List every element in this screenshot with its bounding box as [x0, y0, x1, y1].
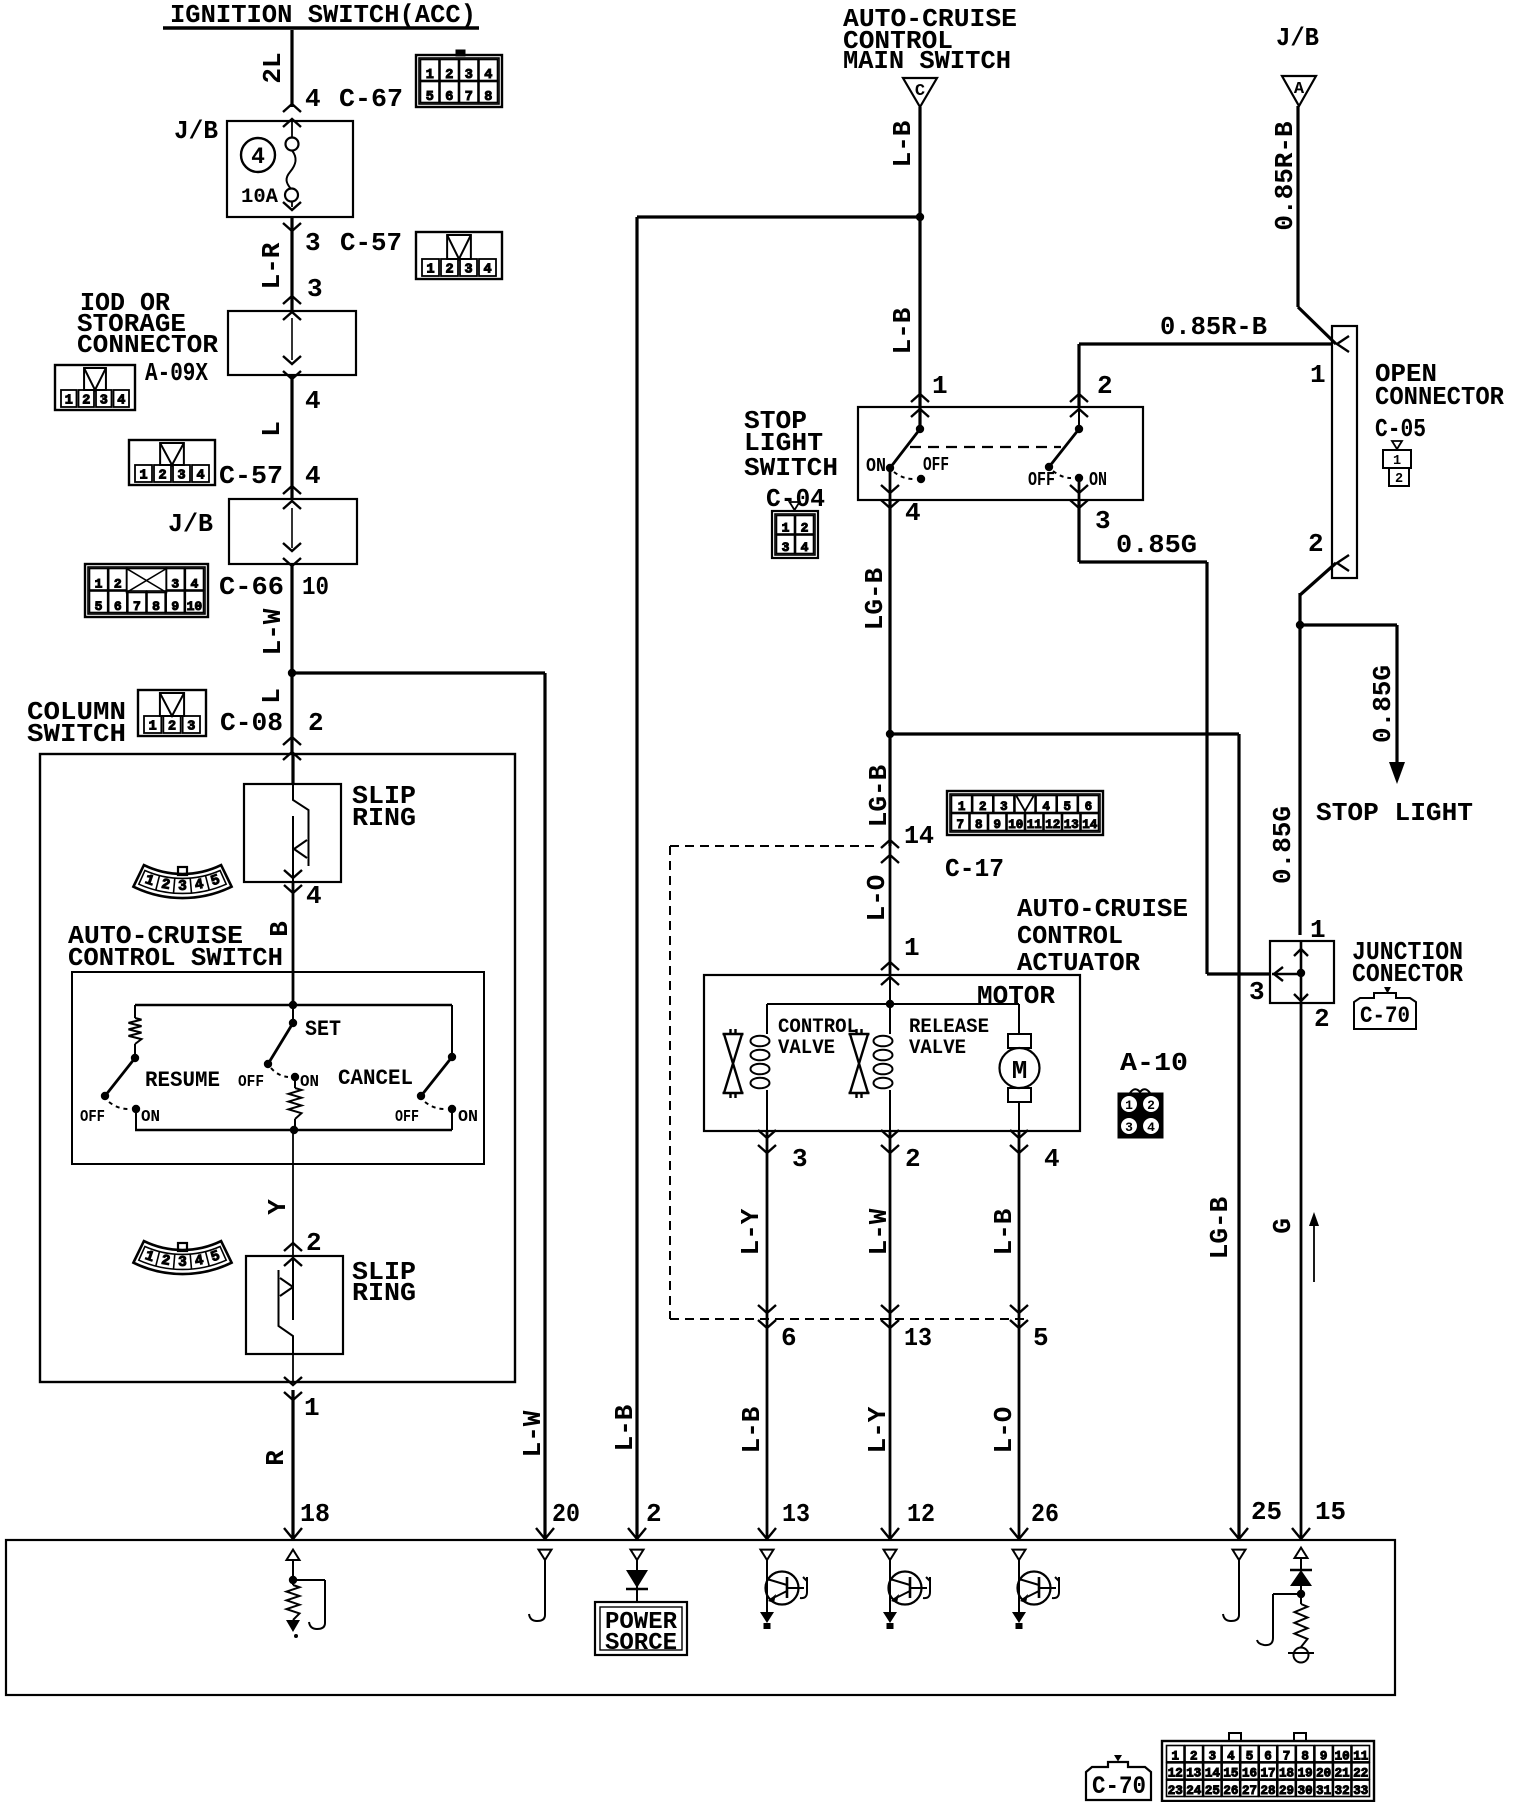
STOP LIGHT SWITCH label — [744, 406, 838, 483]
connector icon C-57 4-pin (left) — [129, 440, 215, 485]
svg-text:30: 30 — [1298, 1784, 1313, 1798]
svg-text:9: 9 — [1320, 1749, 1328, 1763]
svg-text:1: 1 — [782, 521, 790, 536]
svg-text:26: 26 — [1223, 1784, 1238, 1798]
svg-text:4: 4 — [191, 577, 199, 592]
svg-text:C-67: C-67 — [339, 84, 403, 114]
svg-text:3: 3 — [792, 1144, 808, 1174]
svg-text:L-Y: L-Y — [863, 1406, 893, 1453]
wire L-B branch horizontal — [637, 215, 920, 218]
RESUME switch — [80, 1005, 220, 1130]
svg-text:1: 1 — [904, 933, 920, 963]
wire L-B to ECU pin 13 — [737, 1319, 810, 1540]
svg-text:25: 25 — [1205, 1784, 1220, 1798]
junction connector pin 2 — [1294, 994, 1330, 1034]
auto-cruise control switch box — [72, 972, 484, 1164]
svg-text:L-W: L-W — [864, 1208, 894, 1255]
wire L-W branch vertical to pin 20 — [518, 673, 548, 1540]
svg-text:15: 15 — [1223, 1767, 1238, 1781]
svg-text:IGNITION SWITCH(ACC): IGNITION SWITCH(ACC) — [170, 0, 476, 30]
svg-text:28: 28 — [1260, 1784, 1275, 1798]
svg-text:1: 1 — [149, 720, 157, 735]
svg-text:14: 14 — [904, 821, 934, 851]
svg-text:C: C — [915, 82, 925, 101]
svg-text:LG-B: LG-B — [864, 764, 894, 827]
junction node 0.85G — [1296, 621, 1304, 629]
svg-text:0.85R-B: 0.85R-B — [1270, 121, 1300, 231]
wire L-B from motor — [989, 1131, 1019, 1319]
svg-text:CANCEL: CANCEL — [338, 1066, 413, 1091]
svg-text:C-70: C-70 — [1092, 1772, 1146, 1801]
connector icon C-08 3-pin — [138, 690, 324, 738]
svg-text:5: 5 — [426, 90, 434, 105]
main switch source triangle C — [903, 78, 937, 107]
svg-text:5: 5 — [1246, 1749, 1254, 1763]
power rail underline — [163, 26, 479, 30]
svg-text:RESUME: RESUME — [145, 1068, 220, 1093]
connector icon A-09X — [55, 358, 208, 410]
svg-text:2: 2 — [1314, 1004, 1330, 1034]
svg-text:4: 4 — [801, 540, 809, 555]
svg-text:7: 7 — [465, 90, 473, 105]
svg-text:6: 6 — [1085, 800, 1093, 814]
svg-text:SET: SET — [305, 1017, 341, 1042]
ECU pin 15 circuit — [1257, 1548, 1314, 1663]
svg-text:13: 13 — [904, 1323, 932, 1353]
svg-text:4: 4 — [483, 263, 491, 278]
svg-text:ACTUATOR: ACTUATOR — [1017, 948, 1140, 978]
svg-text:29: 29 — [1279, 1784, 1294, 1798]
svg-text:15: 15 — [1315, 1497, 1346, 1527]
svg-text:2: 2 — [801, 521, 809, 536]
svg-text:1: 1 — [304, 1393, 320, 1423]
svg-text:B: B — [265, 921, 295, 937]
svg-text:STOP LIGHT: STOP LIGHT — [1316, 798, 1473, 828]
junction connector pin 3 — [1249, 967, 1283, 1007]
wire L from IOD connector to C-57 — [219, 375, 321, 499]
junction connector box — [1270, 941, 1334, 1003]
svg-text:1: 1 — [1310, 915, 1326, 945]
connector A-10 crossing pin 6 — [758, 1305, 797, 1353]
ECU pin 20 circuit — [529, 1550, 552, 1621]
svg-text:13: 13 — [782, 1499, 810, 1529]
svg-text:3: 3 — [1249, 977, 1265, 1007]
motor box output pin 2 — [881, 1130, 921, 1174]
arc connector icon upper — [133, 865, 231, 898]
wire 0.85R-B from J/B — [1270, 106, 1336, 344]
svg-text:1: 1 — [95, 577, 103, 592]
svg-text:4: 4 — [251, 144, 265, 170]
svg-text:L-O: L-O — [989, 1407, 1019, 1454]
AUTO-CRUISE CONTROL MAIN SWITCH label — [843, 4, 1017, 76]
wire G from junction connector to pin 15 — [1268, 1003, 1346, 1540]
connector icon C-70 33-pin — [1162, 1733, 1374, 1801]
SET resistor — [289, 1077, 302, 1130]
svg-text:VALVE: VALVE — [909, 1037, 966, 1060]
svg-text:4: 4 — [1044, 1144, 1060, 1174]
svg-text:C-17: C-17 — [945, 854, 1004, 884]
svg-text:C-08: C-08 — [220, 708, 283, 738]
power rail label IGNITION SWITCH(ACC) — [170, 0, 476, 30]
svg-text:16: 16 — [1242, 1767, 1257, 1781]
svg-text:3: 3 — [1209, 1749, 1217, 1763]
connector icon C-67 8-pin — [416, 50, 502, 107]
svg-text:14: 14 — [1205, 1767, 1221, 1781]
svg-text:L-B: L-B — [888, 120, 918, 167]
svg-text:5: 5 — [1064, 800, 1072, 814]
wire L-W from release valve — [864, 1131, 894, 1319]
junction node to L-W branch — [288, 669, 296, 677]
svg-text:OFF: OFF — [1028, 469, 1055, 491]
svg-text:0.85G: 0.85G — [1116, 530, 1197, 560]
slip ring upper output pin 4 — [284, 870, 322, 911]
svg-text:20: 20 — [1316, 1767, 1331, 1781]
svg-text:20: 20 — [552, 1499, 580, 1529]
stop light switch right contact — [1028, 407, 1107, 491]
svg-text:23: 23 — [1168, 1784, 1183, 1798]
svg-text:0.85G: 0.85G — [1268, 806, 1298, 884]
ECU pin mark x1301 — [1292, 1528, 1310, 1539]
wire B from slip ring to control switch — [265, 882, 295, 1005]
wire L-R from J/B to IOD connector — [257, 217, 402, 311]
svg-text:L-B: L-B — [888, 307, 918, 354]
wire L-O to ECU pin 26 — [989, 1319, 1059, 1540]
stop light switch pin 2 crossing — [1070, 371, 1113, 417]
connector A-10 crossing pin 13 — [881, 1305, 932, 1353]
svg-text:4: 4 — [1227, 1749, 1235, 1763]
wire L-Y to ECU pin 12 — [863, 1319, 935, 1540]
wire 0.85G from stop light switch pin 3 — [1079, 500, 1270, 974]
svg-text:L-B: L-B — [737, 1406, 767, 1453]
svg-text:10: 10 — [302, 572, 329, 602]
svg-text:10A: 10A — [241, 186, 278, 209]
wire from slip ring to column switch box edge — [292, 1354, 294, 1382]
AUTO-CRUISE CONTROL SWITCH label — [68, 921, 283, 973]
svg-text:4: 4 — [305, 84, 321, 114]
svg-text:4: 4 — [196, 469, 204, 484]
svg-text:12: 12 — [1168, 1767, 1183, 1781]
svg-text:1: 1 — [139, 469, 147, 484]
junction block J/B second box — [168, 486, 357, 566]
flow arrow up — [1309, 1212, 1319, 1282]
connector icon C-17 14-pin — [945, 791, 1103, 884]
svg-text:2: 2 — [1190, 1749, 1198, 1763]
junction block triangle A — [1282, 76, 1316, 106]
svg-text:2: 2 — [905, 1144, 921, 1174]
wire L-Y from control valve — [736, 1131, 767, 1319]
IOD OR STORAGE CONNECTOR label — [77, 288, 218, 360]
svg-text:ON: ON — [300, 1073, 319, 1092]
connector C-67 crossing pin 4 — [283, 84, 403, 127]
svg-text:6: 6 — [781, 1323, 797, 1353]
svg-text:CONTROL: CONTROL — [1017, 921, 1123, 951]
svg-text:8: 8 — [484, 90, 492, 105]
motor box output pin 4 — [1010, 1130, 1060, 1174]
svg-text:18: 18 — [300, 1499, 330, 1529]
svg-text:C-57: C-57 — [219, 461, 283, 491]
svg-text:C-05: C-05 — [1375, 414, 1426, 444]
wire LG-B to C-17 pin 14 — [864, 734, 934, 851]
connector label box C-70 right — [1354, 987, 1416, 1029]
wire L-O from C-17 to actuator — [862, 846, 920, 975]
wire Y from control switch to slip ring lower — [263, 1130, 293, 1256]
svg-text:RELEASE: RELEASE — [909, 1016, 989, 1039]
stop light switch pin 3 crossing — [1070, 478, 1111, 536]
column switch output pin 1 — [284, 1377, 320, 1423]
svg-text:2: 2 — [158, 469, 166, 484]
svg-text:MOTOR: MOTOR — [977, 981, 1055, 1011]
svg-text:ON: ON — [866, 455, 886, 477]
svg-text:3: 3 — [171, 577, 179, 592]
svg-text:4: 4 — [1042, 800, 1050, 814]
wire R to ECU pin 18 — [261, 1390, 330, 1540]
svg-text:0.85G: 0.85G — [1368, 665, 1398, 743]
connector C-17 crossing pin 14 — [881, 840, 899, 863]
svg-text:L-R: L-R — [257, 242, 287, 289]
svg-text:4: 4 — [305, 386, 321, 416]
svg-text:VALVE: VALVE — [778, 1037, 835, 1060]
svg-text:24: 24 — [1186, 1784, 1202, 1798]
svg-text:3: 3 — [178, 879, 187, 895]
svg-text:3: 3 — [1000, 800, 1008, 814]
ECU pin 26 transistor — [1012, 1550, 1059, 1629]
slip ring lower input pin 2 — [284, 1228, 322, 1266]
svg-text:AUTO-CRUISE: AUTO-CRUISE — [1017, 894, 1188, 924]
stop light switch pin 4 crossing — [881, 468, 921, 528]
svg-text:9: 9 — [171, 599, 179, 614]
wire L-W branch horizontal — [292, 671, 545, 674]
svg-text:33: 33 — [1353, 1784, 1368, 1798]
svg-text:2: 2 — [979, 800, 987, 814]
svg-text:A-10: A-10 — [1120, 1048, 1188, 1078]
svg-text:RING: RING — [352, 803, 416, 833]
svg-text:LG-B: LG-B — [860, 567, 890, 630]
stop light switch box — [858, 407, 1143, 500]
arc connector icon lower — [133, 1241, 231, 1274]
svg-text:11: 11 — [1353, 1749, 1368, 1763]
svg-text:C-57: C-57 — [340, 228, 402, 258]
junction connector pin 1 — [1294, 915, 1326, 956]
JUNCTION CONECTOR label — [1352, 937, 1463, 989]
svg-text:OFF: OFF — [80, 1108, 105, 1127]
svg-text:26: 26 — [1031, 1499, 1059, 1529]
svg-text:3: 3 — [1125, 1120, 1133, 1135]
svg-text:SWITCH: SWITCH — [744, 453, 838, 483]
wire LG-B branch to pin 25 — [890, 734, 1282, 1540]
svg-text:CONTROL: CONTROL — [778, 1016, 858, 1039]
svg-text:MAIN SWITCH: MAIN SWITCH — [843, 46, 1011, 76]
svg-text:2: 2 — [168, 720, 176, 735]
wire 2L from ignition switch to C-67 — [258, 30, 292, 107]
COLUMN SWITCH label — [27, 697, 126, 749]
ECU pin mark x637 — [628, 1528, 646, 1539]
svg-text:13: 13 — [1064, 818, 1079, 832]
svg-text:L: L — [257, 688, 287, 704]
ECU pin 12 transistor — [883, 1550, 930, 1629]
wire 0.85R-B horizontal to stop light switch — [1079, 312, 1333, 407]
ECU pin mark x767 — [758, 1528, 776, 1539]
svg-text:4: 4 — [306, 881, 322, 911]
IOD or storage connector box — [228, 296, 356, 379]
ECU pin 25 circuit — [1223, 1550, 1246, 1621]
wire 0.85G branch to stop light arrow — [1300, 625, 1405, 784]
svg-text:J/B: J/B — [174, 116, 218, 146]
svg-text:0.85R-B: 0.85R-B — [1160, 312, 1267, 342]
svg-text:6: 6 — [114, 599, 122, 614]
svg-text:1: 1 — [1172, 1749, 1180, 1763]
ECU pin mark x545 — [536, 1528, 554, 1539]
svg-text:11: 11 — [1027, 818, 1042, 832]
connector icon C-57 4-pin (right) — [416, 232, 502, 279]
svg-text:CONTROL SWITCH: CONTROL SWITCH — [68, 943, 283, 973]
svg-text:8: 8 — [1301, 1749, 1309, 1763]
ECU pin 2 power source — [595, 1550, 687, 1657]
STOP LIGHT label — [1316, 798, 1473, 828]
svg-text:L-B: L-B — [610, 1404, 640, 1451]
connector icon C-05 — [1383, 441, 1411, 487]
svg-text:L-Y: L-Y — [736, 1208, 766, 1255]
svg-text:R: R — [261, 1450, 291, 1466]
svg-text:L: L — [257, 421, 287, 437]
svg-text:2: 2 — [306, 1228, 322, 1258]
motor M — [1000, 1004, 1040, 1131]
ECU box — [6, 1540, 1395, 1695]
wire LG-B from stop light switch — [860, 500, 890, 734]
ECU pin mark x1239 — [1230, 1528, 1248, 1539]
svg-text:3: 3 — [305, 228, 321, 258]
svg-text:Y: Y — [263, 1199, 293, 1215]
control switch bottom bus — [135, 1126, 452, 1134]
ECU pin mark x890 — [881, 1528, 899, 1539]
J/B label right — [1276, 23, 1319, 53]
svg-text:G: G — [1268, 1218, 1298, 1234]
connector C-08 crossing pin 2 — [283, 737, 301, 760]
slip ring lower — [246, 1256, 416, 1354]
svg-text:M: M — [1012, 1056, 1028, 1086]
svg-text:3: 3 — [178, 1255, 187, 1271]
svg-text:A-09X: A-09X — [145, 358, 208, 388]
control switch top bus — [135, 1001, 452, 1009]
svg-text:32: 32 — [1335, 1784, 1350, 1798]
svg-text:SORCE: SORCE — [605, 1630, 677, 1657]
svg-text:CONNECTOR: CONNECTOR — [77, 330, 218, 360]
stop light switch pin 1 crossing — [911, 371, 948, 417]
svg-text:25: 25 — [1251, 1497, 1282, 1527]
wire L-W from C-66 to column switch — [257, 564, 292, 754]
svg-text:1: 1 — [958, 800, 966, 814]
svg-text:10: 10 — [187, 599, 203, 614]
SET switch — [238, 1005, 341, 1092]
actuator input pin 1 crossing — [881, 962, 899, 985]
svg-text:5: 5 — [95, 599, 103, 614]
svg-text:4: 4 — [305, 461, 321, 491]
svg-text:C-66: C-66 — [219, 572, 284, 602]
open connector C-05 box — [1332, 326, 1357, 578]
A-10 label and icon — [1118, 1048, 1188, 1138]
junction block J/B with fuse 4 10A — [174, 116, 353, 217]
svg-text:A: A — [1294, 80, 1305, 99]
svg-text:18: 18 — [1279, 1767, 1294, 1781]
svg-text:3: 3 — [307, 274, 323, 304]
connector A-10 crossing pin 5 — [1010, 1305, 1049, 1353]
svg-text:2: 2 — [1308, 529, 1324, 559]
svg-text:5: 5 — [1033, 1323, 1049, 1353]
svg-text:2: 2 — [646, 1499, 662, 1529]
svg-text:3: 3 — [1095, 506, 1111, 536]
svg-text:ON: ON — [141, 1108, 160, 1127]
svg-text:OFF: OFF — [238, 1073, 264, 1092]
svg-text:6: 6 — [1264, 1749, 1272, 1763]
svg-text:2: 2 — [445, 263, 453, 278]
connector icon C-66 10-pin — [85, 564, 329, 617]
svg-text:L-W: L-W — [518, 1410, 548, 1457]
svg-text:3: 3 — [782, 540, 790, 555]
junction node LG-B — [886, 730, 894, 738]
svg-text:6: 6 — [445, 90, 453, 105]
slip ring upper — [244, 754, 416, 882]
svg-text:9: 9 — [993, 818, 1001, 832]
control valve — [723, 1004, 859, 1131]
svg-text:12: 12 — [907, 1499, 935, 1529]
svg-text:ON: ON — [1089, 469, 1107, 491]
svg-text:1: 1 — [1310, 360, 1326, 390]
svg-text:8: 8 — [152, 599, 160, 614]
svg-text:7: 7 — [133, 599, 141, 614]
svg-text:7: 7 — [1283, 1749, 1291, 1763]
connector C-04 label and icon — [766, 484, 825, 558]
svg-text:3: 3 — [100, 394, 108, 409]
actuator dashed boundary — [670, 846, 1030, 1319]
svg-text:J/B: J/B — [168, 509, 213, 539]
AUTO-CRUISE CONTROL ACTUATOR label — [1017, 894, 1188, 978]
open connector pin 2 — [1308, 529, 1349, 571]
connector label box C-70 bottom — [1086, 1755, 1151, 1801]
svg-text:L-O: L-O — [862, 875, 892, 922]
wire 0.85G from open connector pin 2 — [1268, 563, 1336, 935]
svg-text:3: 3 — [187, 720, 195, 735]
svg-text:3: 3 — [177, 469, 185, 484]
svg-text:SWITCH: SWITCH — [27, 719, 126, 749]
svg-text:4: 4 — [1147, 1120, 1155, 1135]
svg-text:1: 1 — [65, 394, 73, 409]
svg-text:J/B: J/B — [1276, 23, 1319, 53]
svg-text:L-W: L-W — [258, 608, 288, 655]
motor box output pin 3 — [758, 1130, 808, 1174]
svg-text:1: 1 — [1125, 1098, 1133, 1113]
svg-text:3: 3 — [464, 263, 472, 278]
release valve — [849, 1004, 990, 1131]
svg-text:ON: ON — [458, 1108, 478, 1127]
svg-text:21: 21 — [1335, 1767, 1350, 1781]
open connector pin 1 — [1310, 336, 1349, 390]
svg-text:2: 2 — [1097, 371, 1113, 401]
OPEN CONNECTOR C-05 label — [1375, 359, 1504, 444]
svg-text:10: 10 — [1008, 818, 1023, 832]
svg-text:2: 2 — [1147, 1098, 1155, 1113]
svg-text:OFF: OFF — [395, 1108, 419, 1127]
ECU pin 13 transistor — [760, 1550, 807, 1629]
CANCEL switch — [338, 1005, 478, 1130]
svg-text:14: 14 — [1082, 818, 1098, 832]
svg-text:13: 13 — [1186, 1767, 1201, 1781]
svg-text:7: 7 — [956, 818, 964, 832]
svg-text:4: 4 — [905, 498, 921, 528]
wire L-B from main switch triangle — [888, 107, 920, 429]
svg-text:31: 31 — [1316, 1784, 1331, 1798]
svg-text:17: 17 — [1260, 1767, 1275, 1781]
svg-text:22: 22 — [1353, 1767, 1368, 1781]
svg-text:1: 1 — [932, 371, 948, 401]
